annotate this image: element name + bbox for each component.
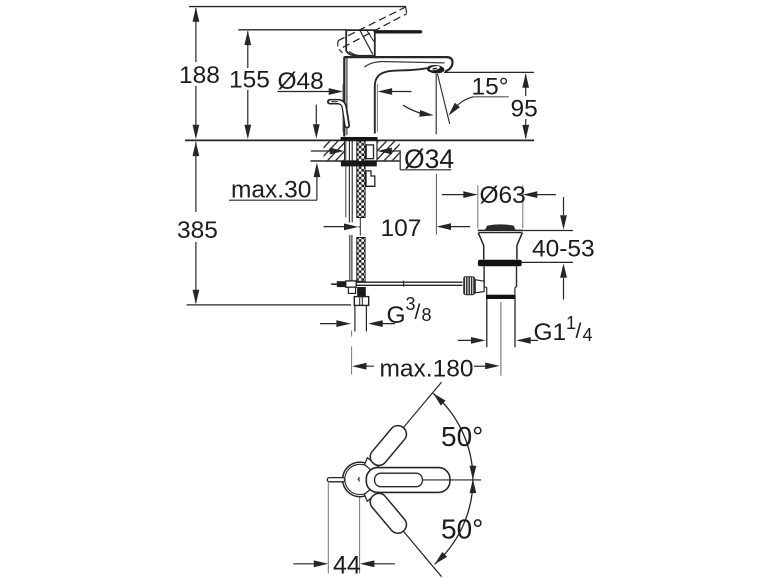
svg-text:188: 188 [179,62,220,89]
svg-text:50°: 50° [441,514,483,545]
rotated lever at -50 deg (plan) [363,485,410,537]
svg-text:50°: 50° [441,421,483,452]
swing arc with arrows (plan) [433,393,476,564]
ref line top of raised lever (188 datum) [189,6,406,8]
aerator (spout outlet) [427,64,445,74]
pull rod below deck [346,141,352,282]
label G 3/8 (supply thread) [320,294,432,329]
supply pipe G3/8 [355,305,367,331]
dimension 188 (height to raised lever top) [179,7,220,139]
label G1 1/4 (drain thread) [458,313,593,346]
drain body [484,266,516,294]
drain centreline [500,302,502,376]
knurled adjuster knob on drain [463,276,484,295]
faucet body and spout outline [344,57,452,136]
svg-text:max.180: max.180 [380,356,474,383]
svg-text:/: / [576,320,582,343]
dimension max.180 (supply to drain) [352,331,500,383]
svg-text:385: 385 [177,217,218,244]
pop-up plug dome [485,224,516,230]
threaded shank (checkered) [357,141,365,282]
svg-text:Ø63: Ø63 [480,182,526,209]
vertical reference line below label [435,174,437,235]
guide sleeve in deck hole [366,145,373,159]
plumb reference line from aerator [435,74,437,134]
stream swing arc with arrow [403,105,434,117]
label 15 degrees with leader [448,74,508,116]
faucet body circle (plan view) [343,462,378,497]
linkage pivot joint [331,281,356,294]
ref line top of lever (155 datum) [238,29,346,31]
svg-text:95: 95 [511,96,538,123]
lower seal ring [486,295,516,299]
lever handle (normal position) [346,30,422,56]
svg-text:8: 8 [422,305,432,325]
dimension 107 (centre to drain line) [324,215,470,242]
rotated lever at +50 deg (plan) [363,422,410,474]
15 degree stream line [438,74,450,124]
label diameter 34 (deck hole) [311,144,454,174]
dimension 95 (spout height) [444,72,538,139]
svg-text:Ø34: Ø34 [404,144,454,174]
dimension diameter 63 (flange) [442,182,556,229]
dimension diameter 48 (body) [278,68,412,132]
compression fitting nut [354,287,368,305]
pop-up pull rod knob (front view) [330,102,348,126]
svg-text:G: G [387,302,406,329]
cartridge centre mark [358,477,359,481]
pop-up linkage clamp bracket [366,171,375,186]
horizontal centreline (plan) [422,479,481,481]
dimension 155 (height to lever top) [229,31,270,140]
rubber seal washer [478,260,522,267]
dimension 385 (deck to supply end) [177,142,351,305]
drain flange cup [478,230,523,259]
upper 50 deg boundary line [371,382,442,466]
svg-text:44: 44 [333,552,361,578]
dimension max.30 (deck thickness) [229,105,320,204]
drain tailpipe G1 1/4 [487,299,515,347]
svg-text:40-53: 40-53 [532,236,595,263]
lower 50 deg boundary line [371,493,442,577]
svg-text:G1: G1 [534,319,567,346]
svg-text:107: 107 [381,215,422,242]
pop-up linkage horizontal bar [356,281,463,287]
svg-text:4: 4 [583,325,593,345]
lever (plan view, forward position) [366,468,450,493]
svg-text:max.30: max.30 [231,177,311,204]
deck cross-section with hatching [294,140,437,162]
raised lever (dashed alternate position) [338,7,407,53]
deck surface line [185,139,534,141]
svg-text:1: 1 [566,313,576,333]
svg-text:155: 155 [229,67,270,94]
dimension 40-53 (adjustment) [515,197,595,300]
pull rod (plan view) [327,478,345,482]
mounting washer nut [341,161,377,167]
base plate of faucet [341,137,378,141]
svg-text:/: / [415,301,421,324]
dimension 44 (rod offset) [293,483,395,578]
